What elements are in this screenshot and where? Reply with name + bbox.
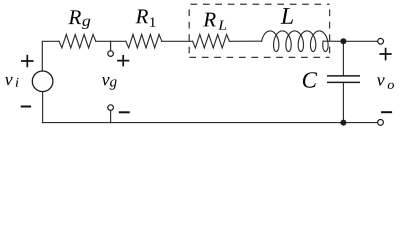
wire: bottom node to output - terminal [343,122,377,124]
wire L to node A [323,40,343,42]
wire: right vertical above capacitor [342,41,344,76]
wire: vg top stub [110,41,112,51]
label Rg [68,10,90,29]
wire R1 to RL [162,40,193,42]
wire: left vertical below source [42,92,44,123]
capacitor C plates [327,76,360,83]
label vi [5,77,19,87]
dashed box around RL and L: top edge [189,3,329,5]
inductor L coil [262,31,329,52]
minus sign vo [381,111,392,113]
wire: top-left corner from source up and right to Rg [42,41,59,71]
wire: bottom rail [42,122,343,124]
dashed box: bottom edge [189,56,329,58]
label RL [203,13,226,30]
wire node A to output + terminal [343,40,377,42]
resistor RL [193,34,230,48]
label C (capacitor) [303,72,317,87]
dashed box: right edge [329,4,331,57]
wire Rg to R1 [96,40,126,42]
resistor Rg [59,34,96,48]
wire: vg bottom stub [110,110,112,122]
junction dot node bottom [340,120,346,126]
output - terminal circle [378,120,384,126]
source vi circle [32,71,53,92]
label L (inductor) [281,8,293,24]
wire RL to L coil [229,40,261,42]
node vg + terminal circle [108,51,114,57]
wire: right vertical below capacitor [342,82,344,122]
plus sign vi [21,55,34,68]
plus sign vo [379,48,391,61]
node vg - terminal circle [108,105,114,111]
label vo [377,77,394,89]
label R1 [135,10,155,27]
label vg [102,77,117,90]
junction dot node A top [340,38,346,44]
minus sign vi [21,106,31,108]
output + terminal circle [378,38,384,44]
minus sign vg [119,111,130,113]
resistor R1 [126,34,162,48]
plus sign vg [117,55,129,67]
dashed box: left edge [188,4,190,57]
